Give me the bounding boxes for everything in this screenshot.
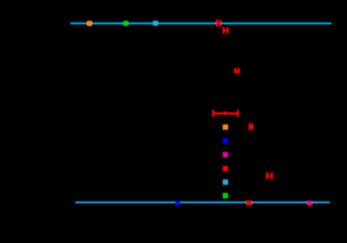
column: magenta square xyxy=(223,152,228,157)
red wide error bar with centre point xyxy=(212,110,238,117)
column: green square xyxy=(223,193,228,198)
magenta square on bottom line xyxy=(307,201,312,206)
top horizontal line (sky blue) xyxy=(71,22,332,24)
red error bar 2 xyxy=(223,27,229,33)
blue square on bottom line xyxy=(175,201,180,206)
column: sky-blue square xyxy=(223,179,228,184)
red centre marker of wide error bar xyxy=(224,111,227,114)
red error bar 3 xyxy=(234,68,240,74)
orange square on top line xyxy=(87,21,92,26)
bottom horizontal line (sky blue) xyxy=(75,201,330,203)
red error bar 5 xyxy=(266,172,273,179)
column: orange square xyxy=(223,124,228,129)
red square on bottom line xyxy=(246,201,252,206)
column: red square xyxy=(223,166,228,171)
red error bar 4 xyxy=(249,123,254,130)
column: blue square xyxy=(223,138,228,143)
green square on top line xyxy=(123,21,128,26)
red error bar 1 (on top line) xyxy=(216,20,221,27)
sky-blue square on top line xyxy=(153,21,158,26)
